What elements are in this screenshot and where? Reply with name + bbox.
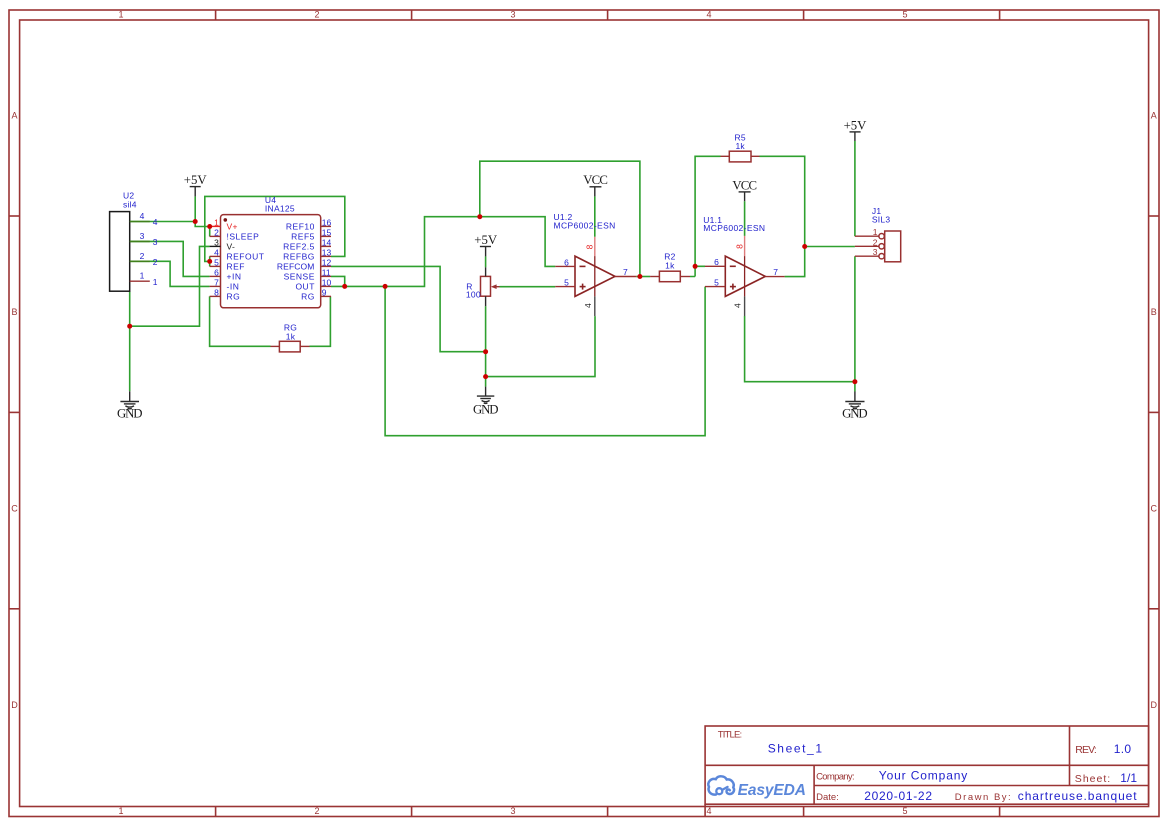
- svg-text:7: 7: [214, 277, 219, 287]
- svg-text:4: 4: [583, 303, 593, 308]
- svg-text:1k: 1k: [286, 331, 296, 341]
- wire R2 to U1.1 -input and R5: [690, 156, 721, 276]
- svg-text:REFBG: REFBG: [283, 251, 315, 261]
- wire U1.2 feedback loop: [480, 161, 640, 276]
- wire U1.2 output to R2: [636, 276, 650, 278]
- wire VCC to U1.2 pin8: [594, 196, 596, 236]
- svg-text:4: 4: [140, 211, 145, 221]
- wire +5V right to J1 pin1: [854, 141, 856, 236]
- svg-text:2020-01-22: 2020-01-22: [864, 789, 932, 803]
- wire U4 SENSE to OUT: [331, 276, 345, 286]
- wire GND mid node to U1.2 pin4: [486, 316, 595, 377]
- power +5V mid: [474, 233, 498, 257]
- wire net +5V left to U4 V+: [130, 196, 210, 236]
- wire sil4 pin2 to U4 -IN: [130, 261, 210, 286]
- svg-text:sil4: sil4: [123, 200, 137, 210]
- svg-text:3: 3: [510, 806, 515, 816]
- svg-text:RG: RG: [227, 291, 241, 301]
- svg-text:4: 4: [153, 217, 158, 227]
- svg-text:3: 3: [873, 247, 878, 257]
- svg-text:1/1: 1/1: [1120, 771, 1137, 785]
- svg-text:B: B: [11, 307, 17, 317]
- svg-text:MCP6002-ESN: MCP6002-ESN: [703, 223, 765, 233]
- EasyEDA logo: [708, 776, 806, 798]
- svg-text:6: 6: [214, 267, 219, 277]
- svg-text:EasyEDA: EasyEDA: [738, 782, 806, 799]
- svg-text:REFCOM: REFCOM: [277, 261, 315, 271]
- svg-text:1k: 1k: [735, 141, 745, 151]
- svg-text:TITLE:: TITLE:: [718, 730, 743, 741]
- svg-text:5: 5: [214, 257, 219, 267]
- svg-text:-IN: -IN: [227, 281, 240, 291]
- svg-text:REF10: REF10: [286, 221, 315, 231]
- svg-text:C: C: [11, 504, 18, 514]
- wire pot wiper to U1.2 +input: [500, 286, 556, 288]
- svg-text:10: 10: [322, 277, 332, 287]
- svg-text:2: 2: [153, 257, 158, 267]
- svg-text:A: A: [11, 111, 17, 121]
- junction +5V/pin4: [193, 219, 198, 224]
- wire U4 OUT to U1.2 -input node: [331, 217, 555, 287]
- junction pot/REFCOM: [483, 349, 488, 354]
- connector U2 sil4: [110, 191, 150, 292]
- IC U4 INA125: [210, 195, 332, 308]
- junction U1.2 output: [637, 274, 642, 279]
- svg-text:A: A: [1151, 111, 1157, 121]
- svg-text:SENSE: SENSE: [284, 271, 315, 281]
- junction dots: [127, 214, 857, 384]
- svg-text:REF5: REF5: [291, 231, 315, 241]
- svg-text:8: 8: [734, 244, 744, 249]
- svg-text:11: 11: [322, 267, 331, 277]
- svg-text:+IN: +IN: [227, 271, 242, 281]
- svg-text:7: 7: [623, 267, 628, 277]
- svg-text:!SLEEP: !SLEEP: [227, 231, 260, 241]
- svg-text:GND: GND: [842, 407, 868, 421]
- svg-text:2: 2: [873, 237, 878, 247]
- op-amp U1.1 MCP6002-ESN: [703, 215, 784, 316]
- svg-text:3: 3: [510, 10, 515, 20]
- svg-text:3: 3: [140, 231, 145, 241]
- potentiometer R 100: [466, 267, 500, 306]
- svg-text:REF2.5: REF2.5: [283, 241, 315, 251]
- junction U1.2 -input: [477, 214, 482, 219]
- svg-text:16: 16: [322, 217, 332, 227]
- svg-text:13: 13: [322, 247, 332, 257]
- ground GND left: [117, 391, 143, 420]
- svg-text:B: B: [1151, 307, 1157, 317]
- svg-text:Company:: Company:: [816, 771, 855, 782]
- svg-text:1: 1: [214, 217, 219, 227]
- svg-text:3: 3: [153, 237, 158, 247]
- svg-text:2: 2: [314, 10, 319, 20]
- svg-text:5: 5: [564, 278, 569, 288]
- svg-text:RG: RG: [301, 291, 315, 301]
- svg-text:REFOUT: REFOUT: [227, 251, 265, 261]
- wire U1.1 pin4 to GND right: [745, 256, 855, 391]
- svg-text:INA125: INA125: [265, 203, 295, 213]
- junction pot GND: [483, 374, 488, 379]
- svg-text:VCC: VCC: [583, 173, 608, 187]
- svg-text:+5V: +5V: [184, 173, 208, 187]
- svg-text:+5V: +5V: [844, 118, 868, 132]
- wire R5 right to U1.1 output node: [760, 156, 855, 276]
- svg-text:1: 1: [873, 227, 878, 237]
- wire U4 OUT down to U1.1 +input: [385, 286, 705, 435]
- ground GND mid: [473, 387, 499, 417]
- ground GND right: [842, 392, 868, 421]
- svg-text:V-: V-: [227, 241, 236, 251]
- svg-text:1: 1: [140, 271, 145, 281]
- resistor RG 1k: [271, 323, 310, 352]
- svg-text:4: 4: [733, 303, 743, 308]
- power +5V left: [184, 173, 208, 196]
- junction GND left: [127, 324, 132, 329]
- svg-text:D: D: [1151, 700, 1158, 710]
- svg-text:+5V: +5V: [474, 233, 498, 247]
- svg-text:1k: 1k: [665, 261, 675, 271]
- svg-text:C: C: [1151, 504, 1158, 514]
- title block: [705, 726, 1149, 817]
- svg-text:D: D: [11, 700, 18, 710]
- junction OUT branch: [383, 284, 388, 289]
- svg-text:100: 100: [466, 290, 481, 300]
- wire U4 V- to GND net left: [130, 246, 210, 391]
- svg-text:12: 12: [322, 257, 332, 267]
- svg-text:MCP6002-ESN: MCP6002-ESN: [554, 221, 616, 231]
- svg-text:REV:: REV:: [1075, 744, 1097, 756]
- svg-text:Date:: Date:: [816, 792, 839, 803]
- junction GND right: [852, 379, 857, 384]
- wire U4 RG pins to RG resistor: [210, 296, 331, 346]
- svg-text:Sheet:: Sheet:: [1075, 773, 1110, 785]
- svg-text:GND: GND: [117, 407, 143, 421]
- svg-text:REF: REF: [227, 261, 246, 271]
- power VCC U1.1: [732, 178, 757, 201]
- junction SENSE/OUT: [342, 284, 347, 289]
- svg-text:OUT: OUT: [295, 281, 314, 291]
- svg-text:15: 15: [322, 227, 332, 237]
- wire VCC to U1.1 pin8: [744, 201, 746, 236]
- svg-text:5: 5: [902, 806, 907, 816]
- svg-text:VCC: VCC: [732, 178, 757, 192]
- connector J1 SIL3: [855, 206, 901, 262]
- svg-text:14: 14: [322, 237, 332, 247]
- svg-text:Drawn By:: Drawn By:: [955, 792, 1011, 803]
- svg-text:2: 2: [214, 227, 219, 237]
- svg-text:1: 1: [118, 806, 123, 816]
- svg-text:1: 1: [153, 277, 158, 287]
- resistor R5 1k: [721, 132, 760, 162]
- svg-text:9: 9: [322, 287, 327, 297]
- junction U1.1 -input: [693, 264, 698, 269]
- svg-text:8: 8: [585, 244, 595, 249]
- svg-text:5: 5: [714, 278, 719, 288]
- power VCC U1.2: [583, 173, 608, 196]
- wire +5V mid to pot: [485, 256, 487, 267]
- junction REFOUT/REF: [207, 259, 212, 264]
- svg-text:2: 2: [314, 806, 319, 816]
- svg-text:2: 2: [140, 251, 145, 261]
- svg-text:GND: GND: [473, 402, 499, 416]
- wire U4 REFBG loop to REFOUT/REF: [205, 196, 345, 266]
- junction U1.1 output: [802, 244, 807, 249]
- svg-text:1.0: 1.0: [1114, 742, 1132, 756]
- resistor R2 1k: [650, 252, 690, 282]
- svg-text:6: 6: [714, 257, 719, 267]
- svg-text:3: 3: [214, 237, 219, 247]
- svg-text:8: 8: [214, 287, 219, 297]
- svg-text:4: 4: [706, 806, 711, 816]
- svg-text:1: 1: [118, 10, 123, 20]
- wire U4 REFCOM to pot node: [331, 266, 486, 351]
- svg-text:SIL3: SIL3: [872, 215, 891, 225]
- svg-text:5: 5: [902, 10, 907, 20]
- svg-text:V+: V+: [227, 221, 238, 231]
- svg-text:4: 4: [706, 10, 711, 20]
- junction V+ pin1: [207, 224, 212, 229]
- svg-text:4: 4: [214, 247, 219, 257]
- svg-text:Your Company: Your Company: [879, 769, 968, 783]
- svg-text:chartreuse.banquet: chartreuse.banquet: [1018, 789, 1137, 803]
- wire sil4 pin3 to U4 +IN: [130, 241, 210, 276]
- wire pot bottom to GND mid: [485, 306, 487, 386]
- svg-text:7: 7: [773, 267, 778, 277]
- svg-text:6: 6: [564, 257, 569, 267]
- power +5V right: [844, 118, 868, 141]
- op-amp U1.2 MCP6002-ESN: [554, 212, 637, 316]
